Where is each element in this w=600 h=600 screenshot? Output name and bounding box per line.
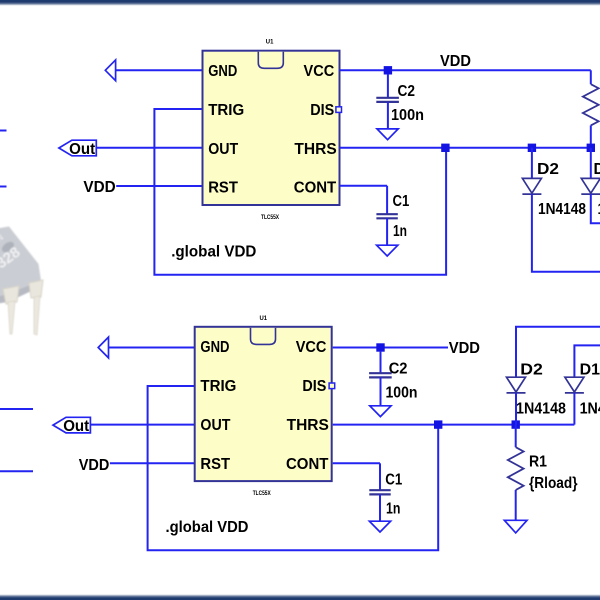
wire: C2 to ground (bottom) [380,377,382,405]
svg-text:D2: D2 [537,161,559,178]
junction: VCC/C2 node (top) [384,66,392,74]
svg-text:DIS: DIS [302,378,326,395]
ground arrow (GND pin, bottom circuit) [98,337,108,358]
diode D2 (top) [522,178,541,193]
wire: THRS horizontal net (bottom) [333,424,575,426]
junction: THRS/D2/R1 node (bottom) [512,420,520,428]
node Out tag (top circuit) [59,140,96,156]
wire: Out tag to U1 OUT pin (bottom) [90,424,194,426]
wire: node down to D1 (top) [590,148,592,179]
wire: left edge stub upper (net to off-page) [0,130,7,132]
wire: D1 cathode to THRS end (bottom) [573,393,575,425]
junction: THRS/R/D1 node (top) [587,144,595,152]
svg-text:RST: RST [200,456,230,473]
svg-text:U1: U1 [266,39,274,46]
svg-text:TLC55X: TLC55X [253,490,272,497]
svg-text:C2: C2 [389,361,408,378]
decorative top band [0,0,600,3]
svg-text:CONT: CONT [286,456,329,473]
wire: GND arrow to U1 GND pin (bottom) [109,347,195,349]
resistor R1 (bottom) [508,447,524,490]
svg-text:R1: R1 [529,454,547,471]
diode D2 (bottom) [507,377,526,392]
svg-text:C1: C1 [385,472,402,489]
wire: node down to D2 (top) [531,148,533,179]
555-type timer IC U1-bottom (TLC55X): body [195,327,332,481]
capacitor C2 plates (bottom) [369,372,392,374]
wire: D1 cathode to off-page right (top) [591,194,600,223]
svg-text:VCC: VCC [296,339,327,356]
svg-text:VCC: VCC [304,63,335,80]
svg-text:VDD: VDD [440,53,471,70]
wire: VDD label to U1 RST pin (bottom) [110,462,195,464]
wire: C1 to ground (bottom) [379,494,381,521]
svg-text:TRIG: TRIG [208,102,244,119]
svg-text:1N4148: 1N4148 [516,400,566,417]
svg-text:TRIG: TRIG [200,378,236,395]
wire: down to C2 (bottom) [380,351,382,373]
wire: left edge stub upper (net to off-page, bottom) [0,408,33,410]
svg-text:1N4148: 1N4148 [580,400,600,417]
svg-text:.global VDD: .global VDD [171,244,256,261]
wire: D2 cathode to THRS node (bottom) [515,393,517,425]
svg-text:GND: GND [208,63,237,80]
wire: D2 cathode to off-page right (top) [532,194,600,272]
svg-text:OUT: OUT [200,417,230,434]
wire: C1 to ground (top) [386,218,388,245]
ground symbol under C1 (bottom) [369,521,390,532]
wire: down to C1 top plate (top) [386,186,388,214]
wire: VDD label to U1 RST pin (top) [116,185,202,187]
svg-text:CONT: CONT [294,180,337,197]
svg-text:1n: 1n [393,223,407,240]
junction: VCC/C2 node (bottom) [376,343,384,351]
wire: off-page right to D2 anode (bottom) [516,327,600,377]
wire: CONT pin to C1 (bottom) [333,462,380,464]
capacitor C1 plates (bottom) [369,489,390,491]
diode D1 (top, clipped at edge) [581,178,600,193]
svg-text:GND: GND [200,339,229,356]
svg-text:D2: D2 [520,362,543,379]
svg-text:C2: C2 [398,83,416,100]
wire: VCC to VDD rail (top) [340,69,591,71]
wire: R1 to ground (bottom) [515,490,517,520]
svg-text:TLC55X: TLC55X [261,214,280,221]
svg-text:D1: D1 [580,362,600,379]
small open square: unconnected DIS pin (top) [336,107,342,113]
wire: TRIG feedback loop to THRS (top) [154,109,446,275]
svg-text:100n: 100n [386,385,418,402]
wire: off-page right to D1 anode (bottom) [574,345,600,377]
ground symbol under C1 (top) [377,245,398,256]
svg-text:THRS: THRS [287,417,330,434]
svg-text:100n: 100n [391,107,424,124]
wire: Out tag to U1 OUT pin (top) [96,147,202,149]
svg-text:D1: D1 [594,161,600,178]
ground symbol under R1 (bottom) [504,520,527,533]
IC U1-bottom orientation notch [251,328,276,345]
node Out tag (bottom circuit) [53,417,90,433]
svg-text:1N4148: 1N4148 [538,201,586,218]
small open square: unconnected DIS pin (bottom) [329,383,335,389]
svg-text:RST: RST [208,180,238,197]
svg-text:.global VDD: .global VDD [166,519,249,536]
svg-text:1n: 1n [386,500,400,517]
svg-text:Out: Out [63,418,89,435]
wire: node down to R1 (bottom) [515,425,517,448]
svg-text:THRS: THRS [294,141,337,158]
svg-text:Out: Out [69,141,95,158]
ground arrow (GND pin, top circuit) [105,60,115,81]
svg-text:VDD: VDD [83,179,115,196]
wire: C2 to ground (top) [387,102,389,129]
wire: TRIG feedback loop to THRS (bottom) [148,386,439,550]
junction: THRS/feedback node (top) [441,144,449,152]
svg-text:DIS: DIS [310,102,334,119]
ground symbol under C2 (top) [377,129,398,140]
wire: left edge stub lower (net to off-page, bottom) [0,470,33,472]
wire: THRS horizontal net (top) [340,147,591,149]
junction: THRS/feedback node (bottom) [434,420,442,428]
capacitor C1 plates (top) [376,213,397,215]
svg-text:VDD: VDD [449,340,480,357]
resistor R (top right, value off-page) [583,84,599,125]
svg-text:C1: C1 [393,193,410,210]
capacitor C2 plates (top) [376,97,399,99]
wire: VCC to VDD label (bottom) [333,347,448,349]
wire: CONT pin to C1 (top) [340,185,388,187]
wire: left edge stub lower (net to off-page) [0,186,7,188]
wire: GND arrow to U1 GND pin (top) [116,69,203,71]
wire: down to C1 (bottom) [379,463,381,490]
555-type timer IC U1-top (TLC55X): body [203,51,340,205]
svg-text:VDD: VDD [79,457,110,474]
wire: R bottom to THRS net (top) [590,125,592,147]
svg-text:{Rload}: {Rload} [529,475,578,492]
wire: VDD node down to C2 (top) [387,74,389,98]
svg-text:OUT: OUT [208,141,238,158]
ground symbol under C2 (bottom) [370,406,391,417]
wire: VDD rail down to R (top) [590,70,592,84]
IC U1-top orientation notch [258,52,283,69]
decorative bottom band [0,594,600,597]
svg-text:U1: U1 [260,315,268,322]
junction: THRS/D2 node (top) [528,144,536,152]
diode D1 (bottom) [565,377,584,392]
